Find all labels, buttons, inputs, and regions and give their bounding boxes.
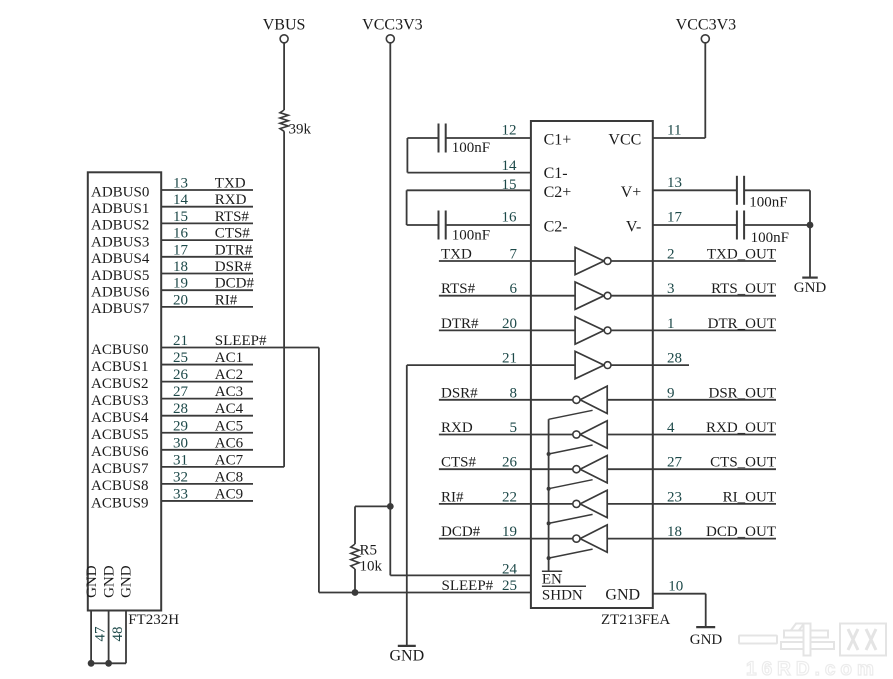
svg-text:AC1: AC1 (215, 350, 243, 366)
svg-text:13: 13 (667, 175, 682, 191)
svg-text:EN: EN (542, 572, 562, 588)
svg-text:VCC3V3: VCC3V3 (676, 17, 736, 34)
svg-text:16RD.com: 16RD.com (746, 659, 879, 679)
svg-text:ACBUS8: ACBUS8 (91, 478, 149, 494)
svg-text:16: 16 (173, 226, 189, 242)
svg-text:ADBUS0: ADBUS0 (91, 184, 149, 200)
svg-text:ACBUS1: ACBUS1 (91, 359, 149, 375)
svg-text:14: 14 (502, 158, 518, 174)
svg-text:15: 15 (502, 177, 517, 193)
svg-text:AC4: AC4 (215, 401, 244, 417)
svg-text:39k: 39k (289, 122, 312, 138)
svg-text:AC6: AC6 (215, 435, 244, 451)
svg-text:AC5: AC5 (215, 418, 243, 434)
svg-text:ADBUS2: ADBUS2 (91, 218, 149, 234)
svg-text:ADBUS5: ADBUS5 (91, 268, 149, 284)
svg-text:ZT213FEA: ZT213FEA (601, 612, 670, 628)
svg-text:V-: V- (626, 219, 641, 236)
svg-text:DTR_OUT: DTR_OUT (708, 316, 776, 332)
svg-text:32: 32 (173, 469, 188, 485)
svg-text:CTS#: CTS# (215, 226, 251, 242)
svg-text:1: 1 (667, 316, 675, 332)
svg-text:C2+: C2+ (544, 184, 572, 201)
svg-text:33: 33 (173, 486, 188, 502)
svg-text:R5: R5 (360, 543, 378, 559)
svg-text:20: 20 (502, 316, 517, 332)
svg-text:8: 8 (510, 385, 518, 401)
svg-text:ADBUS6: ADBUS6 (91, 285, 150, 301)
svg-text:100nF: 100nF (452, 140, 490, 156)
svg-text:15: 15 (173, 209, 188, 225)
svg-text:10: 10 (668, 579, 683, 595)
svg-text:5: 5 (510, 420, 518, 436)
svg-text:25: 25 (173, 350, 188, 366)
svg-text:GND: GND (690, 632, 723, 648)
svg-text:3: 3 (667, 281, 675, 297)
svg-text:DCD#: DCD# (441, 524, 481, 540)
svg-text:TXD: TXD (215, 176, 246, 192)
svg-text:21: 21 (173, 333, 188, 349)
svg-text:18: 18 (173, 259, 188, 275)
svg-text:GND: GND (389, 647, 424, 664)
svg-text:RTS#: RTS# (215, 209, 250, 225)
svg-text:DSR_OUT: DSR_OUT (708, 385, 776, 401)
svg-text:GND: GND (794, 280, 827, 296)
svg-text:10k: 10k (360, 559, 383, 575)
svg-text:RI#: RI# (215, 292, 238, 308)
svg-text:ADBUS7: ADBUS7 (91, 301, 150, 317)
svg-text:2: 2 (667, 247, 675, 263)
svg-text:DTR#: DTR# (215, 242, 253, 258)
svg-text:ACBUS5: ACBUS5 (91, 427, 149, 443)
svg-text:GND: GND (84, 565, 100, 598)
svg-text:SLEEP#: SLEEP# (215, 333, 267, 349)
svg-text:20: 20 (173, 292, 188, 308)
svg-text:7: 7 (510, 247, 518, 263)
svg-text:27: 27 (667, 455, 683, 471)
svg-text:23: 23 (667, 489, 682, 505)
svg-text:CTS#: CTS# (441, 455, 477, 471)
svg-text:AC2: AC2 (215, 367, 243, 383)
svg-text:26: 26 (502, 455, 518, 471)
svg-text:RTS_OUT: RTS_OUT (711, 281, 776, 297)
svg-text:RI#: RI# (441, 489, 464, 505)
svg-text:17: 17 (173, 242, 189, 258)
svg-text:6: 6 (510, 281, 518, 297)
svg-text:28: 28 (667, 351, 682, 367)
svg-text:V+: V+ (621, 184, 642, 201)
svg-text:14: 14 (173, 192, 189, 208)
svg-text:ACBUS3: ACBUS3 (91, 393, 149, 409)
svg-text:C2-: C2- (544, 219, 568, 236)
svg-text:DSR#: DSR# (215, 259, 252, 275)
svg-text:TXD_OUT: TXD_OUT (707, 247, 776, 263)
svg-text:DSR#: DSR# (441, 385, 478, 401)
svg-text:ACBUS6: ACBUS6 (91, 444, 149, 460)
svg-text:24: 24 (502, 562, 518, 578)
svg-text:GND: GND (119, 565, 135, 598)
svg-text:TXD: TXD (441, 247, 472, 263)
svg-text:18: 18 (667, 524, 682, 540)
svg-text:30: 30 (173, 435, 188, 451)
svg-text:DCD_OUT: DCD_OUT (706, 524, 776, 540)
svg-text:DCD#: DCD# (215, 276, 255, 292)
svg-text:GND: GND (605, 587, 640, 604)
svg-text:48: 48 (110, 627, 126, 642)
svg-text:31: 31 (173, 452, 188, 468)
svg-text:ADBUS3: ADBUS3 (91, 234, 149, 250)
svg-text:19: 19 (502, 524, 517, 540)
svg-text:27: 27 (173, 384, 189, 400)
svg-text:ACBUS0: ACBUS0 (91, 342, 149, 358)
svg-text:SHDN: SHDN (542, 588, 583, 604)
svg-text:28: 28 (173, 401, 188, 417)
svg-text:CTS_OUT: CTS_OUT (710, 455, 776, 471)
svg-text:AC9: AC9 (215, 486, 243, 502)
svg-text:25: 25 (502, 578, 517, 594)
svg-text:11: 11 (667, 123, 681, 139)
svg-text:SLEEP#: SLEEP# (442, 578, 494, 594)
svg-text:RXD_OUT: RXD_OUT (706, 420, 776, 436)
svg-text:19: 19 (173, 276, 188, 292)
svg-text:16: 16 (502, 210, 518, 226)
svg-text:RXD: RXD (441, 420, 473, 436)
svg-text:AC8: AC8 (215, 469, 243, 485)
svg-text:RI_OUT: RI_OUT (723, 489, 776, 505)
svg-text:FT232H: FT232H (128, 612, 179, 628)
svg-text:RXD: RXD (215, 192, 247, 208)
svg-text:VCC3V3: VCC3V3 (362, 17, 422, 34)
svg-text:29: 29 (173, 418, 188, 434)
svg-text:ADBUS4: ADBUS4 (91, 251, 150, 267)
svg-text:100nF: 100nF (751, 230, 789, 246)
svg-text:47: 47 (93, 626, 109, 642)
svg-text:12: 12 (502, 123, 517, 139)
svg-text:ACBUS4: ACBUS4 (91, 410, 149, 426)
svg-text:C1-: C1- (544, 165, 568, 182)
svg-text:9: 9 (667, 385, 675, 401)
svg-text:26: 26 (173, 367, 189, 383)
svg-text:AC3: AC3 (215, 384, 243, 400)
svg-text:C1+: C1+ (544, 132, 572, 149)
svg-text:VBUS: VBUS (263, 17, 306, 34)
svg-text:ADBUS1: ADBUS1 (91, 201, 149, 217)
svg-text:22: 22 (502, 489, 517, 505)
svg-text:100nF: 100nF (452, 228, 490, 244)
svg-text:GND: GND (101, 565, 117, 598)
svg-text:ACBUS2: ACBUS2 (91, 376, 149, 392)
svg-text:DTR#: DTR# (441, 316, 479, 332)
svg-text:13: 13 (173, 176, 188, 192)
svg-text:RTS#: RTS# (441, 281, 476, 297)
svg-text:ACBUS7: ACBUS7 (91, 461, 149, 477)
svg-text:VCC: VCC (608, 132, 641, 149)
svg-text:100nF: 100nF (749, 194, 787, 210)
svg-text:AC7: AC7 (215, 452, 244, 468)
svg-text:4: 4 (667, 420, 675, 436)
svg-text:17: 17 (667, 210, 683, 226)
svg-text:ACBUS9: ACBUS9 (91, 495, 149, 511)
